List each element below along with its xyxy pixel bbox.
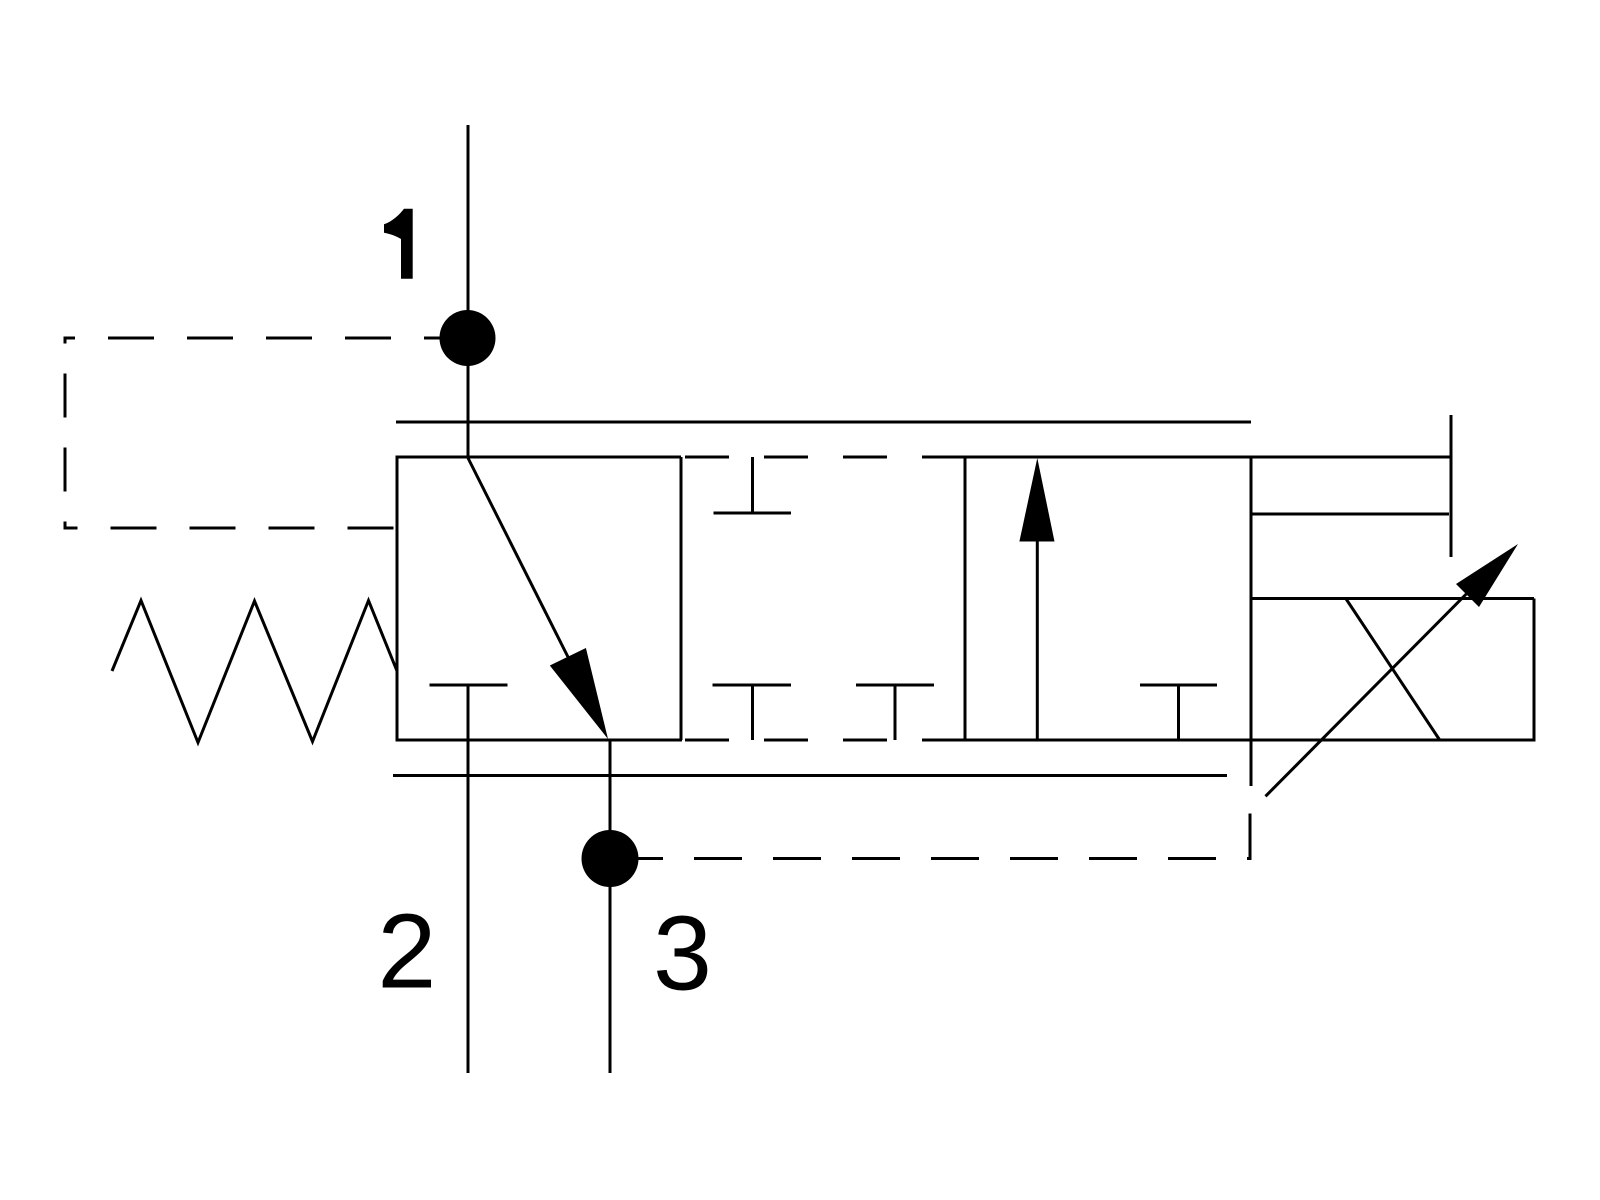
valve right edge [1250, 457, 1253, 786]
port 2 line (T stem continues) [467, 685, 470, 1073]
pilot line dashed box top side [65, 337, 441, 340]
divider 2 [964, 457, 967, 740]
divider 1 [680, 457, 683, 740]
T symbol section 1 bar [430, 684, 508, 687]
stroke-limit line above valve [396, 421, 1251, 424]
armature end bar [1450, 415, 1453, 557]
label port 1 [384, 209, 413, 279]
proportional arrow line [1266, 560, 1501, 796]
stroke-limit line below valve [393, 774, 1227, 777]
flow arrow head [550, 648, 608, 739]
up arrow head [1019, 458, 1054, 542]
solenoid box right edge [1533, 599, 1536, 742]
valve section 3 top edge with right extension [965, 456, 1451, 459]
valve bottom edge section 3 and solenoid box bottom [965, 739, 1534, 742]
solenoid box top edge [1251, 597, 1534, 600]
bottom T right stem [1177, 685, 1180, 740]
valve section 1 bottom edge [396, 739, 683, 742]
pilot line dashed box left side [64, 337, 67, 530]
pilot line dashed box bottom side [65, 527, 395, 530]
node 1 junction dot [440, 310, 496, 366]
bottom T2 middle stem [894, 685, 897, 740]
valve section 1 top edge [396, 456, 682, 459]
top T middle stem [751, 457, 754, 513]
proportional arrow head [1456, 544, 1518, 607]
spring [112, 601, 397, 743]
bottom T1 middle bar [713, 684, 792, 687]
node 3 junction dot [582, 830, 639, 887]
solenoid X diagonal [1346, 599, 1440, 741]
bottom T1 middle stem [751, 685, 754, 740]
pilot line port 3 to solenoid (dashed) [638, 800, 1250, 859]
middle section dashed bottom border [681, 739, 965, 742]
up arrow line (section 3) [1036, 540, 1039, 740]
svg-text:3: 3 [653, 895, 712, 1013]
port 3 line [609, 740, 612, 1073]
bottom T right bar [1140, 684, 1217, 687]
port 1 line [467, 125, 470, 458]
valve left edge [396, 456, 399, 742]
top T middle bar [714, 512, 792, 515]
flow arrow line (section 1) [468, 458, 568, 657]
middle section dashed top border [681, 456, 965, 459]
svg-text:2: 2 [377, 893, 436, 1011]
armature lower line [1251, 513, 1449, 516]
bottom T2 middle bar [856, 684, 934, 687]
